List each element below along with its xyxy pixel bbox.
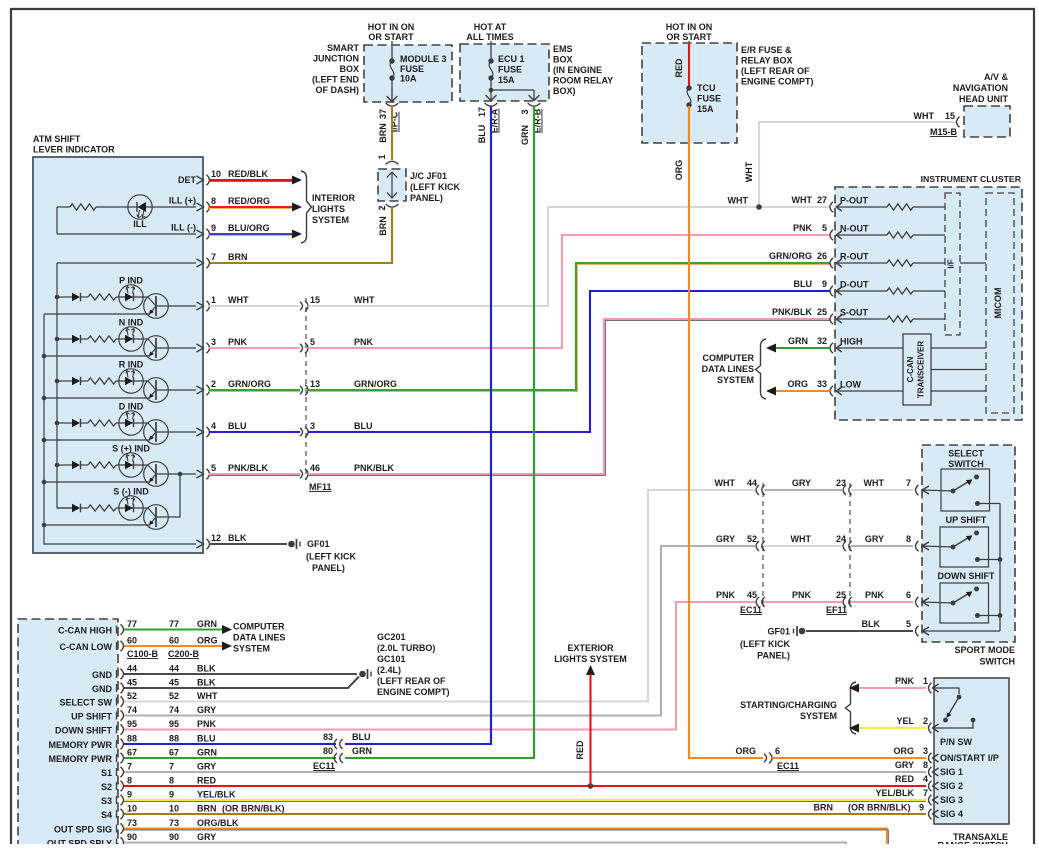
wire WHT SELECT SW to sport mode connector 44 bbox=[124, 490, 755, 702]
LED R IND bbox=[119, 369, 143, 393]
svg-text:NAVIGATION: NAVIGATION bbox=[953, 83, 1008, 93]
svg-text:45: 45 bbox=[169, 678, 179, 688]
svg-text:(OR BRN/BLK): (OR BRN/BLK) bbox=[222, 804, 285, 814]
svg-text:BLK: BLK bbox=[862, 619, 881, 629]
svg-text:OUT SPD SPLY: OUT SPD SPLY bbox=[47, 839, 112, 845]
svg-text:I/F: I/F bbox=[947, 259, 956, 268]
svg-text:OF DASH): OF DASH) bbox=[316, 85, 360, 95]
pin GND of TCU bbox=[92, 683, 124, 694]
svg-text:25: 25 bbox=[817, 307, 827, 317]
svg-text:WHT: WHT bbox=[744, 161, 754, 182]
svg-text:(2.0L TURBO): (2.0L TURBO) bbox=[377, 643, 435, 653]
label 10 10 BRN bbox=[127, 804, 217, 814]
svg-text:OR START: OR START bbox=[368, 32, 414, 42]
brace starting/charging system bbox=[846, 682, 857, 734]
svg-text:32: 32 bbox=[817, 336, 827, 346]
pin OUT SPD SPLY of TCU bbox=[47, 837, 124, 848]
svg-text:44: 44 bbox=[127, 664, 137, 674]
wire ORG from connector 6 to transaxle pin 3 bbox=[772, 746, 928, 758]
resistor N-OUT bbox=[838, 232, 945, 238]
label HOT AT ALL TIMES (EMS box) bbox=[466, 22, 513, 42]
svg-text:5: 5 bbox=[211, 463, 216, 473]
svg-text:UP SHIFT: UP SHIFT bbox=[946, 515, 987, 525]
pin DOWN SHIFT of TCU bbox=[55, 724, 124, 735]
svg-text:(IN ENGINE: (IN ENGINE bbox=[553, 65, 602, 75]
svg-text:C-CAN LOW: C-CAN LOW bbox=[60, 642, 113, 652]
wire WHT from MF11 to instrument cluster pin 27 bbox=[308, 207, 830, 306]
svg-text:R IND: R IND bbox=[119, 360, 144, 370]
label 8 8 RED bbox=[127, 776, 217, 786]
svg-text:GRN: GRN bbox=[788, 336, 808, 346]
svg-text:HOT IN ON: HOT IN ON bbox=[666, 22, 713, 32]
svg-text:8: 8 bbox=[906, 534, 911, 544]
svg-text:PNK/BLK: PNK/BLK bbox=[228, 463, 268, 473]
pin 32 HIGH of instrument cluster bbox=[830, 337, 903, 354]
wire ILL minus internal bbox=[57, 207, 196, 234]
node anode rail junction P bbox=[55, 295, 60, 300]
wire BRN from fuse to connector JF01 pin 1 bbox=[391, 106, 393, 160]
svg-text:4: 4 bbox=[923, 774, 928, 784]
svg-text:R-OUT: R-OUT bbox=[840, 252, 869, 262]
svg-text:BLU: BLU bbox=[354, 421, 373, 431]
svg-text:60: 60 bbox=[127, 636, 137, 646]
svg-text:MICOM: MICOM bbox=[993, 288, 1003, 319]
wire BLU vertical redraw on top bbox=[490, 106, 492, 744]
wire collector of S- up to pin 5 net bbox=[156, 474, 180, 517]
sub-box MICOM bbox=[986, 193, 1014, 413]
svg-text:JUNCTION: JUNCTION bbox=[313, 54, 359, 64]
svg-text:TCU: TCU bbox=[697, 83, 716, 93]
node junction on pin 5 wire bbox=[178, 472, 183, 477]
pin 8 of transaxle range switch bbox=[929, 767, 932, 777]
diode D-N bbox=[57, 335, 88, 343]
instrument cluster box bbox=[835, 187, 1022, 420]
svg-text:SWITCH: SWITCH bbox=[980, 657, 1016, 667]
TCU connector box bbox=[18, 619, 118, 849]
connector 23 EF11 row bbox=[843, 485, 846, 495]
wire GRY S1 to transaxle pin 8 bbox=[124, 771, 926, 773]
pin UP SHIFT of TCU bbox=[71, 710, 123, 721]
pin S4 of TCU bbox=[101, 809, 124, 820]
wire GRN from EMS fuse down to MEMORY PWR connector 80 bbox=[345, 106, 534, 758]
label HOT IN ON OR START (E/R fuse and relay box) bbox=[666, 22, 713, 42]
svg-text:HOT AT: HOT AT bbox=[474, 22, 507, 32]
svg-text:DOWN SHIFT: DOWN SHIFT bbox=[55, 726, 112, 736]
connector 6 EC11 on ORG wire bbox=[735, 746, 780, 763]
svg-text:7: 7 bbox=[169, 762, 174, 772]
label BLU 9 at cluster pin bbox=[794, 279, 828, 289]
label C-CAN TRANSCEIVER bbox=[906, 341, 926, 399]
svg-text:44: 44 bbox=[169, 664, 179, 674]
svg-text:BRN: BRN bbox=[814, 803, 834, 813]
svg-text:DATA LINES: DATA LINES bbox=[233, 633, 285, 643]
pin MEMORY PWR of TCU bbox=[48, 753, 123, 764]
wire collector of P to pin 1 bbox=[156, 305, 196, 307]
svg-text:RELAY BOX: RELAY BOX bbox=[741, 56, 793, 66]
connector pin 2 of J/C JF01 bbox=[377, 204, 398, 236]
svg-text:10: 10 bbox=[169, 804, 179, 814]
svg-text:PANEL): PANEL) bbox=[757, 651, 790, 661]
svg-text:BRN: BRN bbox=[378, 216, 388, 236]
pin MEMORY PWR of TCU bbox=[48, 739, 123, 750]
label PNK 5 at cluster pin bbox=[793, 223, 827, 233]
pin 25 S-OUT of instrument cluster bbox=[830, 308, 869, 325]
wire YEL/BLK S3 to transaxle pin 7 bbox=[124, 799, 926, 801]
svg-text:SIG 2: SIG 2 bbox=[940, 781, 963, 791]
wire WHT from junction up to A/V head unit pin 15 bbox=[759, 122, 956, 207]
node emitter rail junction R bbox=[42, 396, 47, 401]
label 73 73 ORG/BLK bbox=[127, 818, 239, 828]
svg-text:BLU/ORG: BLU/ORG bbox=[228, 223, 270, 233]
pin 7 of ATM indicator bbox=[197, 252, 248, 268]
svg-text:ROOM RELAY: ROOM RELAY bbox=[553, 76, 613, 86]
diode D-S bbox=[57, 461, 88, 469]
wire collector of N to pin 3 bbox=[156, 347, 196, 349]
svg-text:6: 6 bbox=[775, 746, 780, 756]
connector dashed boundary EC11 bbox=[762, 483, 764, 608]
svg-text:9: 9 bbox=[919, 803, 924, 813]
svg-text:90: 90 bbox=[169, 832, 179, 842]
brace computer data lines system bbox=[756, 339, 767, 399]
svg-text:ORG: ORG bbox=[197, 636, 218, 646]
svg-text:SYSTEM: SYSTEM bbox=[312, 215, 349, 225]
svg-text:BLK: BLK bbox=[197, 678, 216, 688]
svg-text:D IND: D IND bbox=[119, 402, 144, 412]
svg-text:PNK: PNK bbox=[793, 223, 813, 233]
node emitter rail junction S- bbox=[42, 523, 47, 528]
svg-text:YEL/BLK: YEL/BLK bbox=[875, 788, 914, 798]
svg-text:PNK: PNK bbox=[865, 590, 885, 600]
label GC201 (2.0L TURBO) GC101 (2.4L) (LEFT REAR OF ENGINE COMPT) bbox=[377, 632, 450, 697]
svg-text:GRN: GRN bbox=[520, 125, 530, 145]
svg-text:COMPUTER: COMPUTER bbox=[703, 353, 755, 363]
label 77 77 GRN bbox=[127, 619, 217, 629]
wire YEL from transaxle pin 2 to starting/charging system bbox=[849, 716, 928, 733]
wire PNK between connectors 45 and 25 bbox=[764, 590, 846, 602]
svg-text:C-CAN: C-CAN bbox=[906, 356, 915, 382]
svg-text:STARTING/CHARGING: STARTING/CHARGING bbox=[740, 700, 837, 710]
svg-text:TRANSCEIVER: TRANSCEIVER bbox=[917, 341, 926, 399]
svg-text:27: 27 bbox=[817, 195, 827, 205]
LED S (-) IND bbox=[119, 496, 143, 520]
svg-text:GRY: GRY bbox=[197, 762, 216, 772]
LED N IND bbox=[119, 327, 143, 351]
pin 26 R-OUT of instrument cluster bbox=[830, 252, 869, 269]
ground GF01 (LEFT KICK PANEL) bbox=[288, 539, 356, 573]
svg-text:45: 45 bbox=[747, 590, 757, 600]
wire collector of R to pin 2 bbox=[156, 389, 196, 391]
svg-text:1: 1 bbox=[923, 676, 928, 686]
svg-text:SWITCH: SWITCH bbox=[948, 459, 984, 469]
svg-text:10A: 10A bbox=[400, 74, 417, 84]
label COMPUTER DATA LINES SYSTEM (bottom) bbox=[233, 622, 285, 654]
svg-text:S (+) IND: S (+) IND bbox=[112, 444, 150, 454]
wire RED from box top to TCU fuse bbox=[688, 44, 690, 87]
pin 33 LOW of instrument cluster bbox=[830, 380, 903, 397]
svg-text:LIGHTS: LIGHTS bbox=[312, 204, 345, 214]
pin 1 of ATM indicator bbox=[197, 295, 217, 311]
fuse ECU 1 FUSE 15A bbox=[486, 45, 540, 101]
svg-text:EC11: EC11 bbox=[777, 761, 799, 771]
connector 83 EC11 bbox=[323, 732, 371, 749]
svg-text:INTERIOR: INTERIOR bbox=[312, 193, 356, 203]
diode D-R bbox=[57, 377, 88, 385]
svg-text:OR START: OR START bbox=[666, 32, 712, 42]
svg-text:8: 8 bbox=[127, 776, 132, 786]
svg-text:3: 3 bbox=[520, 109, 530, 114]
pin 9 of transaxle range switch bbox=[929, 809, 932, 819]
resistor R-P bbox=[88, 294, 119, 300]
label TCU FUSE 15A bbox=[697, 83, 721, 114]
svg-text:GRY: GRY bbox=[197, 832, 216, 842]
svg-text:PNK/BLK: PNK/BLK bbox=[772, 307, 812, 317]
wire stub from HOT label to smart junction box bbox=[391, 41, 393, 46]
svg-text:C200-B: C200-B bbox=[168, 649, 200, 659]
svg-text:(LEFT KICK: (LEFT KICK bbox=[306, 552, 356, 562]
svg-text:33: 33 bbox=[817, 379, 827, 389]
connector 25 EF11 row bbox=[843, 597, 846, 607]
svg-text:RED: RED bbox=[674, 58, 684, 78]
svg-text:N IND: N IND bbox=[119, 318, 144, 328]
connector MF11 pin 13 bbox=[300, 379, 320, 395]
wire PNK from transaxle pin 1 to starting/charging system bbox=[849, 676, 928, 693]
svg-text:GRN/ORG: GRN/ORG bbox=[228, 379, 271, 389]
pin 2 of ATM indicator bbox=[197, 379, 217, 395]
svg-text:WHT: WHT bbox=[864, 478, 885, 488]
svg-text:37: 37 bbox=[378, 109, 388, 119]
svg-text:SELECT: SELECT bbox=[948, 449, 984, 459]
svg-text:52: 52 bbox=[127, 691, 137, 701]
svg-text:EMS: EMS bbox=[553, 44, 573, 54]
wire GRN vertical redraw on top bbox=[533, 106, 535, 758]
label SPORT MODE SWITCH bbox=[954, 645, 1015, 667]
pin 9 D-OUT of instrument cluster bbox=[830, 280, 869, 297]
svg-text:RED/ORG: RED/ORG bbox=[228, 196, 270, 206]
pin 10 DET of ATM indicator bbox=[197, 169, 222, 185]
wire BLU from ATM pin to connector MF11 pin 3 bbox=[209, 421, 300, 432]
EMS box bbox=[460, 44, 549, 101]
transistor Q-P bbox=[143, 294, 168, 319]
svg-text:88: 88 bbox=[127, 734, 137, 744]
label ECU 1 FUSE 15A bbox=[498, 54, 525, 85]
wire BLU/ORG from pin 9 to interior lights system bbox=[209, 223, 302, 239]
transistor Q-R bbox=[143, 378, 168, 403]
A/V navigation head unit box bbox=[964, 106, 1010, 137]
label 60 60 ORG bbox=[127, 636, 218, 646]
pin 5 of sport mode switch bbox=[916, 626, 919, 636]
svg-text:WHT: WHT bbox=[197, 691, 218, 701]
pin 7 of sport mode switch bbox=[916, 485, 919, 495]
label MODULE 3 FUSE 10A bbox=[400, 54, 447, 84]
svg-text:P/N SW: P/N SW bbox=[940, 737, 973, 747]
svg-text:GRN: GRN bbox=[197, 748, 217, 758]
svg-text:52: 52 bbox=[169, 691, 179, 701]
pin 7 of transaxle range switch bbox=[929, 795, 932, 805]
svg-text:EC11: EC11 bbox=[740, 605, 762, 615]
svg-text:SYSTEM: SYSTEM bbox=[717, 375, 754, 385]
svg-text:PNK: PNK bbox=[895, 676, 915, 686]
resistor R-R bbox=[88, 378, 119, 384]
node anode rail junction N bbox=[55, 337, 60, 342]
label SELECT SWITCH bbox=[948, 449, 984, 470]
connector MF11 pin 15 bbox=[300, 295, 320, 311]
svg-text:COMPUTER: COMPUTER bbox=[233, 622, 285, 632]
svg-text:6: 6 bbox=[906, 590, 911, 600]
svg-text:BRN: BRN bbox=[378, 123, 388, 143]
connector 80 EC11 bbox=[323, 746, 372, 763]
svg-text:WHT: WHT bbox=[354, 295, 375, 305]
svg-text:(LEFT KICK: (LEFT KICK bbox=[740, 639, 790, 649]
svg-text:26: 26 bbox=[817, 251, 827, 261]
svg-text:PNK: PNK bbox=[197, 719, 217, 729]
svg-text:95: 95 bbox=[127, 719, 137, 729]
label GRN/ORG 26 at cluster pin bbox=[769, 251, 827, 261]
svg-text:44: 44 bbox=[747, 478, 757, 488]
svg-text:ENGINE COMPT): ENGINE COMPT) bbox=[741, 77, 814, 87]
wire GRY UP SHIFT to sport mode connector 52 bbox=[124, 546, 755, 716]
svg-text:GF01: GF01 bbox=[767, 627, 790, 637]
pin 12 of ATM indicator bbox=[197, 533, 247, 549]
svg-text:2: 2 bbox=[923, 716, 928, 726]
svg-text:ILL: ILL bbox=[133, 219, 147, 229]
svg-text:73: 73 bbox=[169, 818, 179, 828]
svg-text:S4: S4 bbox=[101, 810, 112, 820]
wire ORG/BLK OUT SPD SIG bbox=[124, 829, 887, 846]
svg-text:15A: 15A bbox=[498, 75, 515, 85]
node anode rail junction R bbox=[55, 379, 60, 384]
connector 37 I/P-C below smart junction box bbox=[378, 103, 400, 143]
smart junction box bbox=[364, 45, 452, 102]
svg-text:GRN: GRN bbox=[352, 746, 372, 756]
wire BLK pin5 into box bbox=[921, 630, 1000, 632]
svg-text:E/R FUSE &: E/R FUSE & bbox=[741, 45, 792, 55]
svg-text:UP SHIFT: UP SHIFT bbox=[71, 712, 112, 722]
svg-text:GND: GND bbox=[92, 670, 113, 680]
wire ORG vertical redraw on top bbox=[688, 106, 690, 758]
svg-text:8: 8 bbox=[169, 776, 174, 786]
svg-text:WHT: WHT bbox=[728, 196, 749, 206]
svg-text:3: 3 bbox=[923, 746, 928, 756]
svg-text:PANEL): PANEL) bbox=[312, 563, 345, 573]
connector 24 EF11 row bbox=[843, 541, 846, 551]
wire PNK/BLK from MF11 to instrument cluster pin 25 bbox=[308, 319, 830, 476]
svg-text:74: 74 bbox=[127, 705, 137, 715]
wire BLK GND 44 to ground bbox=[124, 673, 357, 675]
svg-text:67: 67 bbox=[169, 748, 179, 758]
svg-text:INSTRUMENT CLUSTER: INSTRUMENT CLUSTER bbox=[921, 174, 1022, 184]
label EXTERIOR LIGHTS SYSTEM bbox=[554, 643, 627, 664]
svg-text:M15-B: M15-B bbox=[930, 127, 958, 137]
svg-text:A/V &: A/V & bbox=[984, 72, 1009, 82]
svg-text:SIG 1: SIG 1 bbox=[940, 767, 963, 777]
svg-text:67: 67 bbox=[127, 748, 137, 758]
svg-text:YEL/BLK: YEL/BLK bbox=[197, 790, 236, 800]
pin S2 of TCU bbox=[101, 781, 124, 792]
pin GND of TCU bbox=[92, 669, 124, 680]
brace interior lights system bbox=[301, 171, 312, 243]
svg-text:SPORT MODE: SPORT MODE bbox=[954, 645, 1015, 655]
svg-text:DOWN SHIFT: DOWN SHIFT bbox=[938, 571, 995, 581]
connector MF11 pin 46 bbox=[300, 463, 320, 479]
svg-text:BLU: BLU bbox=[197, 734, 216, 744]
wire PNK to sport mode switch pin 6 bbox=[851, 590, 913, 602]
transistor Q-S bbox=[143, 505, 168, 530]
svg-text:EF11: EF11 bbox=[826, 605, 847, 615]
wire BLU MEMORY PWR to connector 83 bbox=[124, 743, 336, 745]
svg-text:GF01: GF01 bbox=[307, 539, 330, 549]
pin SELECT SW of TCU bbox=[59, 696, 123, 707]
svg-text:GND: GND bbox=[92, 684, 113, 694]
svg-text:9: 9 bbox=[127, 790, 132, 800]
pin 3 of transaxle range switch bbox=[929, 753, 932, 763]
label COMPUTER DATA LINES SYSTEM bbox=[702, 353, 755, 385]
svg-text:BRN: BRN bbox=[197, 804, 217, 814]
svg-text:45: 45 bbox=[127, 678, 137, 688]
label 52 52 WHT bbox=[127, 691, 218, 701]
svg-text:5: 5 bbox=[906, 619, 911, 629]
wire GRN MEMORY PWR to connector 80 bbox=[124, 757, 336, 759]
resistor of ILL circuit bbox=[57, 204, 120, 210]
switch SELECT SWITCH bbox=[921, 469, 1000, 511]
connector MF11 pin 3 bbox=[300, 421, 315, 437]
svg-text:PNK: PNK bbox=[354, 337, 374, 347]
label SMART JUNCTION BOX (LEFT END OF DASH) bbox=[312, 43, 359, 95]
LED ILL bbox=[120, 195, 197, 219]
svg-text:P IND: P IND bbox=[119, 276, 143, 286]
svg-text:SIG 4: SIG 4 bbox=[940, 809, 963, 819]
svg-text:90: 90 bbox=[127, 832, 137, 842]
svg-text:PNK/BLK: PNK/BLK bbox=[354, 463, 394, 473]
svg-text:WHT: WHT bbox=[228, 295, 249, 305]
svg-text:95: 95 bbox=[169, 719, 179, 729]
wire emitter of R to ground rail bbox=[44, 397, 150, 399]
pin 8 ILL+ of ATM indicator bbox=[197, 196, 217, 212]
svg-text:15: 15 bbox=[945, 111, 955, 121]
svg-text:GRN/ORG: GRN/ORG bbox=[769, 251, 812, 261]
connector MF11 dashed boundary bbox=[305, 298, 307, 480]
wire PNK from MF11 to instrument cluster pin 5 bbox=[308, 235, 830, 348]
wire emitter of P to ground rail bbox=[44, 313, 150, 315]
wire PNK DOWN SHIFT to sport mode connector 45 bbox=[124, 602, 755, 730]
pin C-CAN HIGH of TCU bbox=[58, 624, 124, 635]
svg-text:77: 77 bbox=[127, 619, 137, 629]
node junction RED with exterior lights wire bbox=[588, 783, 594, 789]
pin 4 of ATM indicator bbox=[197, 421, 217, 437]
svg-text:7: 7 bbox=[211, 252, 216, 262]
label 74 74 GRY bbox=[127, 705, 216, 715]
svg-text:2: 2 bbox=[211, 379, 216, 389]
label INTERIOR LIGHTS SYSTEM bbox=[312, 193, 356, 225]
resistor R-OUT bbox=[838, 260, 945, 266]
node anode rail junction D bbox=[55, 421, 60, 426]
wire collector of D to pin 4 bbox=[156, 431, 196, 433]
label STARTING/CHARGING SYSTEM bbox=[740, 700, 837, 721]
node WHT junction to A/V head unit bbox=[756, 204, 762, 210]
ground GC201/GC101 bbox=[359, 669, 371, 679]
svg-text:4: 4 bbox=[211, 421, 216, 431]
resistor D-OUT bbox=[838, 288, 945, 294]
wire stub from HOT AT label to EMS box bbox=[490, 41, 492, 45]
diode D-S bbox=[57, 504, 88, 512]
svg-text:15A: 15A bbox=[697, 104, 714, 114]
wire emitter of D to ground rail bbox=[44, 439, 150, 441]
svg-text:C100-B: C100-B bbox=[127, 649, 159, 659]
svg-text:ORG: ORG bbox=[735, 746, 756, 756]
svg-text:EC11: EC11 bbox=[313, 761, 335, 771]
LED D IND bbox=[119, 411, 143, 435]
wire GRY to sport mode switch pin 8 bbox=[851, 534, 913, 546]
svg-text:D-OUT: D-OUT bbox=[840, 280, 869, 290]
